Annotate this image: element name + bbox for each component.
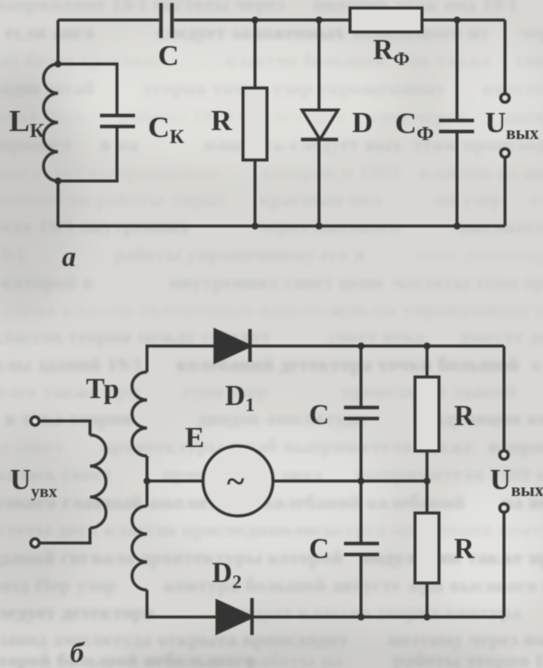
- wire: lower R branch top (circuit b): [426, 481, 429, 513]
- node: bottom rail C junction: [358, 614, 365, 621]
- terminal: Uout plus (circuit a): [501, 94, 510, 103]
- node: R top junction: [252, 17, 259, 24]
- node: middle rail C junction: [358, 478, 365, 485]
- terminal: Uin upper (circuit b): [31, 417, 39, 425]
- svg-text:Uувх: Uувх: [10, 464, 58, 501]
- transformer Tr primary winding: [90, 435, 106, 528]
- svg-text:C: C: [309, 400, 329, 431]
- capacitor CF: [439, 121, 474, 132]
- wire: secondary upper to center tap: [146, 456, 149, 506]
- wire: Uout lower lead (circuit a): [504, 159, 507, 227]
- wire: Uout lower lead (circuit b): [503, 514, 506, 618]
- node: CF bottom junction: [454, 223, 461, 230]
- terminal: Uin lower (circuit b): [31, 539, 39, 547]
- svg-text:C: C: [158, 40, 179, 72]
- wire: Uin lower lead: [41, 528, 91, 543]
- svg-text:R: R: [211, 105, 233, 137]
- svg-text:Uвых: Uвых: [490, 464, 543, 500]
- wire: lower R branch bottom: [426, 583, 429, 617]
- capacitor C lower (circuit b): [344, 544, 379, 555]
- svg-text:RФ: RФ: [373, 35, 410, 70]
- resistor R lower (circuit b): [415, 513, 439, 583]
- wire: Uout upper lead (circuit a): [504, 20, 507, 93]
- node: bottom rail R junction: [424, 614, 431, 621]
- wire: circuit a top rail right of C: [174, 19, 505, 22]
- wire: R branch upper (circuit a): [254, 20, 257, 88]
- wire: upper R branch bottom: [426, 451, 429, 481]
- transformer Tr secondary lower half: [132, 506, 147, 590]
- source E: [203, 446, 273, 516]
- wire: circuit a top rail left of C: [58, 19, 159, 22]
- wire: secondary top lead: [147, 346, 215, 372]
- svg-text:R: R: [454, 401, 475, 432]
- diode D2: [217, 598, 252, 635]
- node: D top junction: [316, 17, 323, 24]
- wire: E to middle rail: [273, 480, 428, 483]
- wire: diode D anode lead: [318, 20, 321, 110]
- wire: R branch lower (circuit a): [254, 160, 257, 226]
- wire: upper C branch top (circuit b): [360, 346, 363, 406]
- wire: Uout upper lead (circuit b): [503, 346, 506, 450]
- svg-text:D1: D1: [225, 381, 255, 416]
- terminal: Uout plus (circuit b): [500, 451, 509, 460]
- wire: secondary bottom lead: [147, 590, 217, 617]
- svg-text:Тр: Тр: [86, 374, 119, 405]
- svg-text:CК: CК: [148, 111, 185, 148]
- svg-text:~: ~: [227, 464, 244, 500]
- svg-text:D2: D2: [212, 558, 242, 593]
- diode D1: [215, 329, 250, 362]
- capacitor CK: [100, 116, 135, 127]
- svg-text:D: D: [352, 107, 373, 139]
- wire: top rail circuit b: [250, 345, 504, 348]
- svg-text:CФ: CФ: [395, 107, 434, 145]
- resistor R (circuit a): [243, 88, 267, 160]
- wire: lower C branch bottom: [360, 555, 363, 617]
- wire: circuit a left rail upper: [57, 20, 60, 64]
- wire: CK branch top: [58, 64, 117, 114]
- wire: CF branch lower: [456, 132, 459, 226]
- wire: circuit a left rail lower: [57, 181, 60, 226]
- svg-text:а: а: [62, 242, 76, 273]
- svg-text:б: б: [70, 638, 85, 668]
- resistor RF: [350, 8, 422, 32]
- capacitor C upper (circuit b): [344, 408, 379, 419]
- node: top rail R junction: [424, 343, 431, 350]
- node: top rail C junction: [358, 343, 365, 350]
- svg-text:C: C: [309, 534, 329, 565]
- terminal: Uout minus (circuit b): [500, 504, 509, 513]
- wire: CF branch upper: [456, 20, 459, 119]
- wire: diode D cathode lead: [318, 140, 321, 227]
- wire: Uin upper lead: [41, 421, 91, 435]
- wire: CK branch bottom: [58, 128, 117, 181]
- svg-text:Uвых: Uвых: [485, 107, 539, 143]
- inductor LK: [43, 64, 58, 181]
- transformer Tr secondary upper half: [132, 372, 147, 456]
- node: D bottom junction: [316, 223, 323, 230]
- node: R bottom junction: [252, 223, 259, 230]
- wire: upper C branch bottom: [360, 419, 363, 481]
- svg-text:E: E: [185, 422, 204, 454]
- node: LK top junction: [55, 61, 62, 68]
- wire: lower C branch top (circuit b): [360, 481, 363, 542]
- node: middle rail R junction: [424, 478, 431, 485]
- wire: bottom rail circuit b: [252, 616, 504, 619]
- wire: circuit a bottom rail: [58, 225, 505, 228]
- node: CF top junction: [454, 17, 461, 24]
- node: center tap: [144, 478, 151, 485]
- diode D: [301, 110, 338, 140]
- node: LK bottom junction: [55, 178, 62, 185]
- svg-text:R: R: [454, 534, 475, 565]
- terminal: Uout minus (circuit a): [501, 149, 510, 158]
- wire: upper R branch top (circuit b): [426, 346, 429, 377]
- svg-text:LК: LК: [9, 103, 45, 142]
- capacitor C (coupling): [161, 3, 172, 38]
- resistor R upper (circuit b): [415, 377, 439, 451]
- wire: center tap to E: [147, 480, 203, 483]
